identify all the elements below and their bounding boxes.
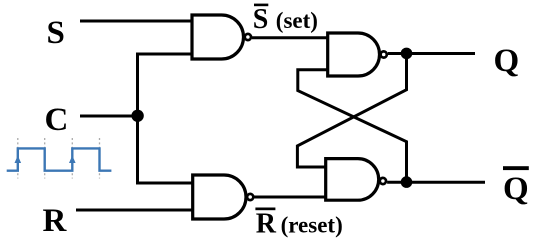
node label S-bar (set) <box>253 4 318 35</box>
svg-text:C: C <box>45 102 69 138</box>
junction dot node Q <box>401 48 413 60</box>
wire S input <box>80 20 192 23</box>
svg-text:(set): (set) <box>276 8 318 33</box>
clock waveform guide line 4 <box>99 138 101 179</box>
wire C branch to gate U1 <box>136 53 192 56</box>
NAND gate U1 <box>192 15 251 59</box>
wire C branch to gate U2 <box>136 182 193 185</box>
output label Q-bar <box>503 166 529 207</box>
clock waveform guide line 2 <box>44 138 46 179</box>
clock rising-edge arrow 1 <box>15 156 22 164</box>
wire feedback Q to U4 input <box>297 53 406 167</box>
wire R-bar net <box>255 196 326 199</box>
svg-text:Q: Q <box>494 43 520 79</box>
clock rising-edge arrow 2 <box>69 156 76 164</box>
clock waveform guide line 1 <box>17 138 19 179</box>
svg-text:(reset): (reset) <box>281 213 343 238</box>
wire U3 output to Q <box>388 52 475 55</box>
NAND gate U4 <box>326 159 386 201</box>
svg-text:S: S <box>47 15 65 51</box>
wire C vertical branch <box>136 54 139 183</box>
clock waveform guide line 3 <box>71 138 73 179</box>
junction dot node Q-bar <box>401 176 413 188</box>
wire R input <box>76 209 193 212</box>
node label R-bar (reset) <box>255 208 342 240</box>
clock waveform square wave <box>7 148 112 170</box>
svg-text:R: R <box>256 209 277 240</box>
svg-text:R: R <box>43 203 68 239</box>
NAND gate U2 <box>193 175 254 219</box>
svg-text:Q: Q <box>503 171 529 207</box>
svg-text:S: S <box>253 4 269 35</box>
NAND gate U3 <box>328 33 387 76</box>
wire S-bar net <box>252 36 328 39</box>
wire feedback Q-bar to U3 input <box>298 70 407 182</box>
wire C input <box>80 115 138 118</box>
wire U4 output to Q-bar <box>387 181 485 184</box>
junction dot node C <box>131 110 143 122</box>
